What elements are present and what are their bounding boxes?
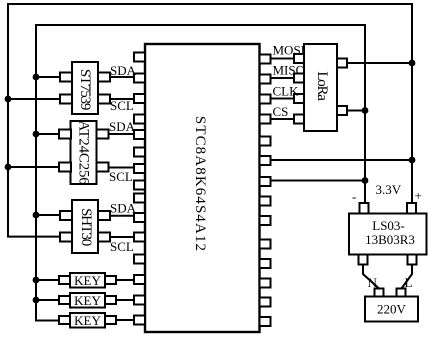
chip U4 SHT30 body <box>72 200 98 253</box>
source 220V body <box>365 297 418 322</box>
wire SDA U3 to U1 <box>107 133 135 135</box>
wire U2 SCL to rail A <box>8 98 61 100</box>
wire U3 SDA to rail B <box>36 133 60 135</box>
wire U1 to rail D <box>269 180 365 182</box>
KEY3 pins <box>59 316 70 324</box>
wire SCL U3 to U1 <box>107 167 135 169</box>
svg-text:AT24C256: AT24C256 <box>76 120 92 185</box>
svg-text:SDA: SDA <box>110 201 137 216</box>
wire MISO <box>269 77 295 79</box>
junction rail D / U1 <box>362 177 369 184</box>
svg-text:KEY: KEY <box>74 273 101 288</box>
junction rail B / KEY1 <box>33 277 40 284</box>
wire right rail C <box>411 3 413 204</box>
junction rail B / U4 SDA <box>33 212 40 219</box>
junction rail C / U1 3.3V <box>409 157 416 164</box>
junction rail B / U3 SDA <box>33 131 40 138</box>
junction rail A / U3 SCL <box>5 164 12 171</box>
wire KEY3 to U1 <box>115 319 135 321</box>
wire U4 SDA to rail B <box>36 214 61 216</box>
svg-text:SDA: SDA <box>110 63 137 78</box>
switch KEY1 body <box>70 273 105 288</box>
switch KEY2 body <box>70 293 105 308</box>
wire SDA U2 to U1 <box>109 76 135 78</box>
U1 left pins <box>134 53 145 62</box>
wire right rail D <box>364 24 366 204</box>
svg-text:L: L <box>405 275 413 290</box>
svg-text:SCL: SCL <box>110 239 134 254</box>
svg-text:+: + <box>415 188 422 203</box>
wire LS03 L out to 220V <box>402 264 413 289</box>
chip U2 ST7539 body <box>72 62 98 114</box>
svg-text:KEY: KEY <box>74 313 101 328</box>
wire MOSI <box>269 58 295 60</box>
U1 right pins <box>260 55 271 64</box>
svg-text:13B03R3: 13B03R3 <box>365 232 415 247</box>
svg-text:ST7539: ST7539 <box>77 69 93 110</box>
220V top pins <box>375 289 384 297</box>
U4 pins <box>60 211 72 220</box>
wire U2 SDA to rail B <box>36 76 61 78</box>
junction rail B / KEY2 <box>33 297 40 304</box>
junction rail A / U2 SCL <box>5 96 12 103</box>
wire VCC top rail <box>8 3 412 5</box>
svg-text:CLK: CLK <box>273 84 300 99</box>
U2 pins <box>60 73 72 82</box>
svg-text:-: - <box>352 189 356 204</box>
wire KEY1 to U1 <box>115 279 135 281</box>
svg-text:CS: CS <box>273 104 289 119</box>
wire SCL U4 to U1 <box>109 236 135 238</box>
U5 left pins <box>294 54 304 63</box>
KEY2 pins <box>59 296 70 304</box>
svg-text:LS03-: LS03- <box>372 218 405 233</box>
wire KEY1 to rail B <box>36 279 60 281</box>
module U6 LS03-13B03R3 body <box>349 214 427 255</box>
wire U1 3.3V to rail C <box>269 159 412 161</box>
switch KEY3 body <box>70 313 105 328</box>
wire LoRa out1 to rail C <box>346 62 412 64</box>
junction rail C / LoRa out1 <box>409 60 416 67</box>
svg-text:3.3V: 3.3V <box>376 182 402 197</box>
U6 top pins <box>360 203 369 214</box>
svg-text:SHT30: SHT30 <box>78 208 94 246</box>
svg-text:MISO: MISO <box>273 63 306 78</box>
svg-text:SCL: SCL <box>110 98 134 113</box>
svg-text:KEY: KEY <box>74 293 101 308</box>
U3 pins <box>59 130 71 139</box>
wire left rail A <box>8 3 61 237</box>
wire LS03 N out to 220V <box>363 264 379 289</box>
module U5 LoRa body <box>304 44 337 131</box>
wire U3 SCL to rail A <box>8 166 60 168</box>
junction rail B / U2 SDA <box>33 74 40 81</box>
svg-text:220V: 220V <box>377 302 407 317</box>
wire SCL U2 to U1 <box>109 98 135 100</box>
wire KEY2 to U1 <box>115 299 135 301</box>
U5 right pins <box>337 59 347 68</box>
KEY1 pins <box>59 276 70 284</box>
svg-text:MOSI: MOSI <box>273 43 306 58</box>
svg-text:SDA: SDA <box>109 119 136 134</box>
wire CLK <box>269 98 295 100</box>
wire CS <box>269 118 295 120</box>
svg-text:N: N <box>368 275 378 290</box>
svg-text:LoRa: LoRa <box>314 71 330 101</box>
op-amp U1 STC8A8K64S4A12 body <box>145 44 260 332</box>
wire left rail B <box>36 24 60 321</box>
svg-text:SCL: SCL <box>109 169 133 184</box>
U6 bottom pins <box>359 255 368 265</box>
wire KEY2 to rail B <box>36 299 60 301</box>
wire GND second rail <box>36 24 365 26</box>
chip U3 AT24C256 body <box>71 121 97 184</box>
wire SDA U4 to U1 <box>109 215 135 217</box>
junction rail D / LoRa out2 <box>362 107 369 114</box>
svg-text:STC8A8K64S4A12: STC8A8K64S4A12 <box>192 116 208 252</box>
wire LoRa out2 to rail D <box>346 110 365 112</box>
